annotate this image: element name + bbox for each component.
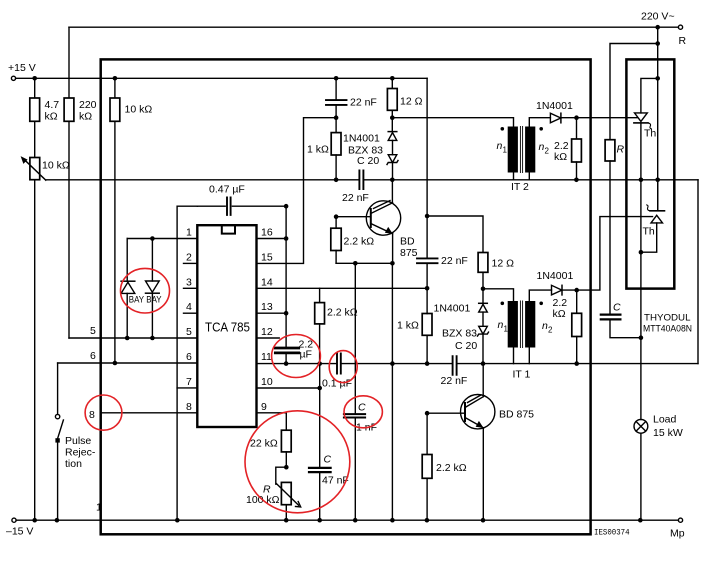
svg-text:BD 875: BD 875 xyxy=(499,409,534,421)
svg-text:2: 2 xyxy=(548,326,553,335)
wire pin 13 xyxy=(257,239,289,316)
wire lower channel supply xyxy=(425,78,483,252)
switch Pulse Rejection xyxy=(55,363,95,520)
svg-text:BAY: BAY xyxy=(146,295,162,306)
wire pin 16 xyxy=(257,206,289,241)
svg-text:1 kΩ: 1 kΩ xyxy=(397,320,419,332)
svg-text:TCA 785: TCA 785 xyxy=(205,320,250,335)
svg-text:1N4001: 1N4001 xyxy=(536,100,573,112)
svg-text:875: 875 xyxy=(400,247,418,259)
wire pin 7 / 0.47uF return xyxy=(177,206,197,520)
capacitor C 47 nF xyxy=(309,388,349,520)
svg-text:16: 16 xyxy=(261,227,273,239)
wire pin 9 xyxy=(257,413,287,430)
svg-text:C: C xyxy=(358,402,366,414)
svg-text:10: 10 xyxy=(261,376,273,388)
diode D1 BAY xyxy=(121,239,145,339)
svg-text:2.2 kΩ: 2.2 kΩ xyxy=(436,462,467,474)
svg-text:IT 2: IT 2 xyxy=(511,181,529,193)
annotation ellipse (pin 8) xyxy=(85,395,122,430)
resistor 12 Ohm (upper) xyxy=(387,81,422,120)
svg-text:220 V~: 220 V~ xyxy=(641,11,675,23)
svg-text:22 nF: 22 nF xyxy=(342,192,369,204)
annotation ellipse (BAY diodes) xyxy=(121,268,170,313)
svg-text:4.7: 4.7 xyxy=(45,99,60,111)
svg-text:IT 1: IT 1 xyxy=(513,369,531,381)
svg-text:15 kW: 15 kW xyxy=(653,427,683,439)
transistor Q2 BD 875 (lower) xyxy=(425,395,534,429)
svg-text:5: 5 xyxy=(90,325,96,337)
wire Q2 emitter xyxy=(482,428,484,520)
svg-text:4: 4 xyxy=(186,301,192,313)
wire pin 15 to upper channel xyxy=(257,118,337,264)
svg-text:1N4001: 1N4001 xyxy=(537,270,574,282)
svg-text:12 Ω: 12 Ω xyxy=(492,258,515,270)
svg-text:C 20: C 20 xyxy=(357,155,379,167)
svg-text:22 nF: 22 nF xyxy=(441,255,468,267)
svg-text:Th: Th xyxy=(644,128,656,140)
svg-text:8: 8 xyxy=(186,401,192,413)
wire pin 11 (control line lower) xyxy=(257,361,699,366)
svg-text:1: 1 xyxy=(503,146,508,155)
thyristor inner box xyxy=(626,59,674,288)
capacitor 0.47 uF xyxy=(197,184,288,215)
svg-text:1: 1 xyxy=(504,325,509,334)
svg-text:10 kΩ: 10 kΩ xyxy=(42,160,70,172)
thyristor Th2 xyxy=(639,180,665,255)
resistor 22 kOhm xyxy=(250,430,291,469)
transformer IT 1 xyxy=(498,290,554,380)
annotation ellipse (22k/100k/47nF) xyxy=(245,411,350,513)
svg-text:kΩ: kΩ xyxy=(553,308,566,320)
svg-text:µF: µF xyxy=(300,349,312,361)
resistor 2.2 kOhm (upper base-emitter) xyxy=(331,217,374,264)
pin 12 stub xyxy=(257,326,280,338)
svg-text:0.47 µF: 0.47 µF xyxy=(209,184,245,196)
diode 1N4001 (IT2 output) xyxy=(536,100,579,123)
svg-text:22 nF: 22 nF xyxy=(350,97,377,109)
svg-text:3: 3 xyxy=(186,276,192,288)
svg-text:6: 6 xyxy=(186,351,192,363)
capacitor 22 nF (lower series coupling) xyxy=(441,356,468,387)
pin 4 stub xyxy=(184,301,198,313)
svg-text:Th: Th xyxy=(643,226,655,238)
svg-text:THYODUL: THYODUL xyxy=(644,313,691,324)
diode D2 BAY xyxy=(146,239,163,339)
svg-text:R: R xyxy=(679,35,687,47)
zener BZX83 C20 (upper chain) xyxy=(348,145,398,180)
resistor 2.2 kOhm (lower base-emitter) xyxy=(422,413,467,520)
potentiometer 10 kOhm xyxy=(21,121,70,520)
svg-text:kΩ: kΩ xyxy=(45,111,58,123)
svg-text:1: 1 xyxy=(96,502,102,514)
resistor 220 kOhm xyxy=(64,27,97,338)
svg-text:12 Ω: 12 Ω xyxy=(400,96,423,108)
wire IT2 primary feed xyxy=(392,118,513,127)
annotation ellipse (1nF) xyxy=(344,396,382,428)
resistor 1 kOhm (lower) xyxy=(397,288,432,363)
svg-text:1: 1 xyxy=(186,227,192,239)
wire 220V sync line xyxy=(69,25,678,30)
wire bottom rail (pin1 / Mp) xyxy=(16,502,678,523)
node +15V terminal xyxy=(8,62,36,80)
diode 1N4001 (lower chain) xyxy=(434,289,488,327)
capacitor 2.2 uF (pin 13 to pin 11) xyxy=(275,313,313,363)
svg-text:BAY: BAY xyxy=(129,295,145,306)
svg-text:Pulse: Pulse xyxy=(65,435,91,447)
wire IT1 primary feed xyxy=(483,289,514,301)
annotation ellipse (0.1uF) xyxy=(329,351,357,383)
resistor 12 Ohm (lower) xyxy=(478,253,514,292)
svg-text:MTT40A08N: MTT40A08N xyxy=(643,323,692,334)
svg-text:C 20: C 20 xyxy=(455,340,477,352)
wire pin 6 xyxy=(58,350,198,365)
svg-text:14: 14 xyxy=(261,276,273,288)
wire Q1 collector xyxy=(391,180,393,203)
capacitor 22 nF (upper, from +15) xyxy=(326,78,377,120)
svg-text:Load: Load xyxy=(653,414,677,426)
svg-text:1 kΩ: 1 kΩ xyxy=(307,144,329,156)
op-amp/IC U1 TCA 785 xyxy=(197,225,256,427)
wire control line (pot wiper, long horizontal) xyxy=(46,178,698,183)
resistor 1 kOhm (upper) xyxy=(307,118,341,180)
transformer IT 2 xyxy=(497,118,551,193)
svg-text:tion: tion xyxy=(65,458,82,470)
pin 3 stub xyxy=(184,276,198,288)
svg-text:7: 7 xyxy=(186,376,192,388)
capacitor 0.1 uF xyxy=(322,354,352,390)
main enclosure box xyxy=(101,59,591,534)
svg-text:+15 V: +15 V xyxy=(8,62,36,74)
diode 1N4001 (upper chain) xyxy=(343,118,397,155)
capacitor C (snubber) xyxy=(601,302,643,341)
capacitor 22 nF (upper series coupling) xyxy=(342,171,369,205)
node -15V terminal xyxy=(6,518,33,537)
module outline THYODUL xyxy=(643,180,698,364)
lamp Load 15 kW xyxy=(634,414,683,521)
wire pin 1 xyxy=(127,236,197,241)
resistor R (snubber) xyxy=(605,140,624,314)
wire Q1 emitter rail xyxy=(336,234,395,520)
svg-text:1N4001: 1N4001 xyxy=(434,303,471,315)
svg-text:2: 2 xyxy=(545,147,550,156)
pin 2 stub xyxy=(184,251,198,263)
resistor 2.2 kOhm (IT1 secondary load) xyxy=(553,290,582,364)
svg-text:8: 8 xyxy=(89,409,95,421)
wire Th2 gate xyxy=(577,217,653,291)
svg-text:kΩ: kΩ xyxy=(554,151,567,163)
svg-text:12: 12 xyxy=(261,326,273,338)
capacitor 22 nF (lower, from +15) xyxy=(417,216,468,288)
svg-text:–15 V: –15 V xyxy=(6,526,33,538)
svg-text:BD: BD xyxy=(400,236,415,248)
resistor 10 kOhm (pin6 pull) xyxy=(110,81,152,363)
svg-text:220: 220 xyxy=(79,99,97,111)
wire +15V rail xyxy=(16,76,428,81)
zener BZX83 C20 (lower chain) xyxy=(442,326,489,363)
wire 220V to R/C snubber xyxy=(610,27,660,210)
wire pin 14 to lower channel xyxy=(257,286,430,291)
svg-text:13: 13 xyxy=(261,301,273,313)
svg-text:R: R xyxy=(617,144,625,156)
svg-text:6: 6 xyxy=(90,350,96,362)
capacitor C 1 nF xyxy=(344,263,377,520)
wire pin 8 xyxy=(89,409,197,421)
svg-text:2: 2 xyxy=(186,251,192,263)
wire pin 10 xyxy=(257,364,323,391)
svg-text:2.2 kΩ: 2.2 kΩ xyxy=(344,236,375,248)
svg-text:15: 15 xyxy=(261,251,273,263)
svg-text:22 kΩ: 22 kΩ xyxy=(250,438,278,450)
svg-text:2.2 kΩ: 2.2 kΩ xyxy=(327,307,358,319)
svg-text:0.1 µF: 0.1 µF xyxy=(322,378,352,390)
svg-text:11: 11 xyxy=(261,351,272,363)
svg-text:10 kΩ: 10 kΩ xyxy=(125,104,153,116)
potentiometer R 100 kOhm xyxy=(246,467,301,520)
resistor 2.2 kOhm (pin14 to pin11) xyxy=(315,288,358,363)
resistor 4.7 kOhm xyxy=(30,81,59,123)
thyristor Th1 xyxy=(634,78,658,179)
svg-text:BZX 83: BZX 83 xyxy=(442,327,477,339)
svg-text:22 nF: 22 nF xyxy=(441,375,468,387)
svg-text:C: C xyxy=(613,302,621,314)
wire Th1 gate xyxy=(577,117,638,119)
diode 1N4001 (IT1 output) xyxy=(537,270,580,295)
annotation ellipse (2.2uF) xyxy=(272,335,321,378)
svg-text:9: 9 xyxy=(261,401,267,413)
wire load line xyxy=(640,180,642,420)
svg-text:IES00374: IES00374 xyxy=(594,529,630,538)
wire pin 5 xyxy=(69,325,197,340)
svg-text:Rejec-: Rejec- xyxy=(65,447,96,459)
transistor Q1 BD 875 (upper) xyxy=(334,201,418,260)
resistor 2.2 kOhm (IT2 secondary load) xyxy=(554,118,581,180)
svg-text:Mp: Mp xyxy=(670,528,685,540)
node 220V~ terminal R xyxy=(641,11,687,48)
wire Q2 collector xyxy=(482,364,484,397)
svg-text:kΩ: kΩ xyxy=(79,111,92,123)
svg-text:C: C xyxy=(324,454,332,466)
node Mp terminal xyxy=(670,518,685,539)
svg-text:5: 5 xyxy=(186,326,192,338)
svg-text:1N4001: 1N4001 xyxy=(343,133,380,145)
